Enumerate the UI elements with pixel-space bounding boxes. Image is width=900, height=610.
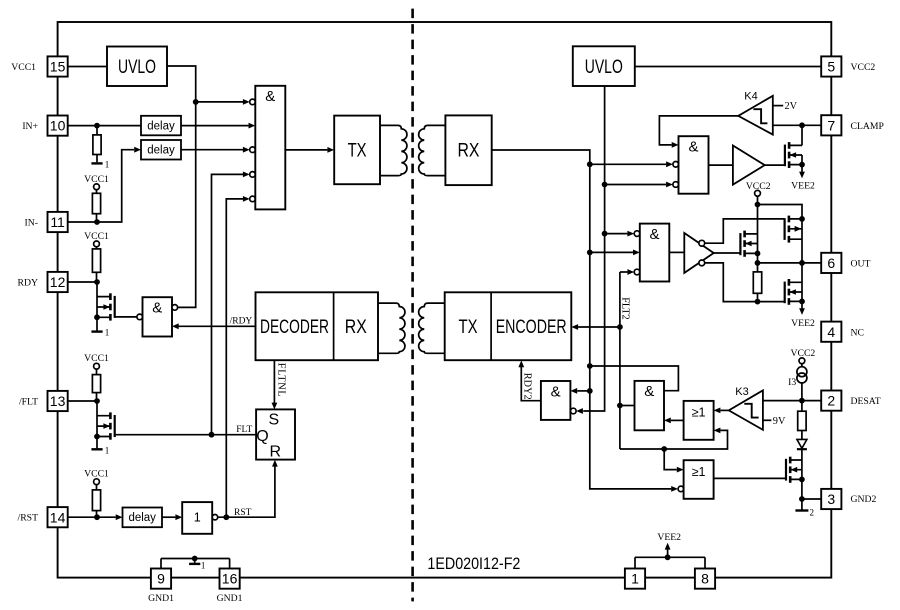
svg-text:VEE2: VEE2 <box>791 318 815 329</box>
wire VCC2 rail to Q4 and Q5 <box>755 202 805 263</box>
pin 15 VCC1 <box>11 56 67 76</box>
svg-text:4: 4 <box>827 324 835 340</box>
wire delay3 to buffer1 <box>162 514 182 520</box>
svg-text:1ED020I12-F2: 1ED020I12-F2 <box>427 555 520 573</box>
supply VEE2 below Q3 <box>791 172 815 192</box>
comparator K3 <box>729 386 763 430</box>
IC boundary <box>58 22 832 578</box>
svg-text:FLT2: FLT2 <box>619 297 630 320</box>
transistor Q1 RDY open-drain <box>94 282 115 331</box>
comparator K4 <box>738 91 773 135</box>
node 9V reference <box>763 416 786 427</box>
logic gate AND4 (fault) <box>635 381 665 430</box>
svg-text:6: 6 <box>827 255 835 271</box>
wire FLT from latch Q to Q2 gate <box>115 425 256 438</box>
resistor R4 pull-up /FLT <box>92 369 100 401</box>
svg-text:&: & <box>688 139 698 156</box>
svg-text:1: 1 <box>201 560 206 570</box>
node VCC2 tap output stage <box>746 181 771 205</box>
svg-text:1: 1 <box>194 511 201 525</box>
delay block delay1 <box>141 116 181 136</box>
wire FLTNL from DECODER to latch S <box>272 360 287 409</box>
svg-text:13: 13 <box>50 393 66 409</box>
wire pin7 CLAMP to K4 input <box>773 122 821 128</box>
svg-text:TX: TX <box>348 141 367 162</box>
wire UVLO2 output down to NAND2 input <box>571 86 608 414</box>
wire OUT row to pin6 <box>755 260 822 266</box>
wire FLT up to AND1 row4 <box>212 172 256 435</box>
svg-text:RDY2: RDY2 <box>521 373 532 400</box>
node VCC1 tap C <box>84 231 109 247</box>
svg-text:TX: TX <box>459 317 478 338</box>
svg-text:1: 1 <box>631 571 639 587</box>
wire UVLO1 branch to AND1 row1 <box>196 99 256 105</box>
block DECODER with RX <box>256 292 379 360</box>
logic gate OR1 <box>684 401 714 440</box>
logic gate AND3 (output) <box>640 224 670 282</box>
wire delay2 to AND1 row3 <box>181 147 255 153</box>
svg-text:RX: RX <box>345 317 367 338</box>
wire AND3 to buffer B3 <box>669 251 684 253</box>
svg-text:FLT: FLT <box>236 425 252 435</box>
isolation barrier dashed line <box>411 9 414 602</box>
svg-text:DECODER: DECODER <box>260 317 329 338</box>
transformer T2 secondary winding <box>419 303 445 353</box>
transformer T1 secondary winding <box>419 125 446 175</box>
wire AND2 row2 from RX line <box>590 161 679 167</box>
svg-text:&: & <box>152 300 162 317</box>
svg-text:14: 14 <box>50 509 66 525</box>
wire UVLO1 output down to NAND1 input bubble <box>167 66 199 307</box>
current source I3 <box>788 367 807 401</box>
block UVLO2 <box>573 46 635 86</box>
svg-text:12: 12 <box>50 274 66 290</box>
wire GND2 node to pin3 <box>799 496 821 502</box>
pin 5 VCC2 <box>821 56 875 76</box>
ground tie GND1 pins <box>161 556 230 571</box>
pin 16 GND1 <box>217 569 243 605</box>
pin 9 GND1 <box>148 569 174 605</box>
logic gate NAND2 (RDY2) <box>541 381 571 420</box>
svg-text:15: 15 <box>50 59 66 75</box>
terminator 2 GND2 <box>795 499 814 517</box>
svg-text:CLAMP: CLAMP <box>851 121 884 132</box>
wire pin15 to UVLO1 <box>68 66 107 68</box>
logic gate OR2 <box>684 460 714 499</box>
logic gate AND1 (input logic) <box>255 86 285 210</box>
wire AND3 row2 from RX line <box>590 250 640 256</box>
wire pin11 to delay2 <box>68 147 141 225</box>
svg-text:8: 8 <box>701 571 709 587</box>
svg-text:2V: 2V <box>785 101 798 112</box>
svg-text:NC: NC <box>851 327 864 338</box>
svg-text:1: 1 <box>105 328 110 338</box>
latch SR fault <box>256 409 295 460</box>
wire K3 output to OR1 <box>714 408 729 414</box>
svg-text:&: & <box>265 88 275 105</box>
wire K4 output to AND2 row1 <box>659 116 738 148</box>
logic gate AND2 (clamp) <box>679 136 709 194</box>
transformer T1 primary winding <box>380 125 407 175</box>
svg-text:delay: delay <box>128 512 156 524</box>
transistor Q2 /FLT open-drain <box>94 401 115 448</box>
svg-text:≥1: ≥1 <box>692 406 706 420</box>
pin 14 /RST <box>18 507 68 527</box>
svg-text:RX: RX <box>458 141 480 162</box>
svg-text:7: 7 <box>827 117 835 133</box>
wire pin14 to delay3 <box>68 514 123 520</box>
svg-text:16: 16 <box>222 571 238 587</box>
svg-text:10: 10 <box>50 118 66 134</box>
wire AND3 row1 from UVLO2 line <box>605 231 640 237</box>
svg-text:/FLT: /FLT <box>19 397 38 408</box>
node VCC2 tap DESAT <box>791 348 816 367</box>
svg-text:Q: Q <box>256 428 268 445</box>
pin 7 CLAMP <box>821 115 884 135</box>
svg-text:VEE2: VEE2 <box>657 532 681 543</box>
svg-text:UVLO: UVLO <box>585 57 623 78</box>
wire OR1 output to AND4 <box>664 418 684 424</box>
wire B3 top output to Q4 gate <box>705 219 785 243</box>
terminator 1 below R1 <box>91 160 109 170</box>
pin 8 VEE2 <box>695 569 715 589</box>
wire delay1 to AND1 row2 <box>181 123 255 129</box>
svg-text:9V: 9V <box>773 416 786 427</box>
block ENCODER with TX <box>445 292 572 360</box>
svg-text:&: & <box>551 383 561 400</box>
svg-text:ENCODER: ENCODER <box>496 317 567 338</box>
svg-text:delay: delay <box>147 120 175 132</box>
wire FLT2 to ENCODER input <box>571 324 620 330</box>
wire RX line wrap to AND4 input <box>590 366 679 391</box>
block RX1 <box>445 115 491 185</box>
pin 4 NC <box>821 322 864 342</box>
svg-text:&: & <box>649 226 659 243</box>
svg-text:RDY: RDY <box>18 278 38 289</box>
svg-text:GND2: GND2 <box>851 494 877 505</box>
svg-text:1: 1 <box>105 160 110 170</box>
wire RST to latch R input <box>218 460 278 520</box>
svg-text:RST: RST <box>234 508 252 518</box>
pin 2 DESAT <box>821 391 881 411</box>
svg-text:3: 3 <box>827 491 835 507</box>
svg-text:OUT: OUT <box>851 258 871 269</box>
delay block delay2 <box>141 140 181 160</box>
wire FLT2 feedback loop to OR1 <box>620 428 728 452</box>
transistor Q6 pull-down <box>785 263 805 305</box>
wire DESAT node to pin2 and K3 <box>763 398 821 404</box>
transistor Q5 source follower <box>740 231 760 257</box>
wire /RDY from DECODER to NAND1 <box>172 317 256 330</box>
buffer B3 output driver <box>684 233 713 273</box>
svg-text:K4: K4 <box>744 91 757 103</box>
buffer B2 clamp driver <box>733 146 765 185</box>
resistor R1 on IN+ <box>93 126 101 163</box>
svg-text:VCC1: VCC1 <box>11 62 36 73</box>
wire RX1 output down to OR2 input <box>492 150 684 492</box>
svg-text:9: 9 <box>157 571 165 587</box>
node 2V reference <box>773 101 798 112</box>
buffer 1 (RST shaper) <box>182 502 218 534</box>
pin 11 IN- <box>25 212 68 232</box>
wire UVLO2 to pin5 <box>635 66 821 68</box>
svg-text:DESAT: DESAT <box>851 396 881 407</box>
svg-text:/RDY: /RDY <box>230 317 253 327</box>
transformer T2 primary winding <box>378 303 405 353</box>
wire NAND2 input1 from RX line <box>570 388 589 394</box>
node VCC1 tap B <box>84 174 109 190</box>
wire Q1 gate to NAND1 output <box>115 314 143 320</box>
wire AND1 output to TX1 <box>285 147 334 153</box>
wire AND3 row3 from FLT2 line <box>620 269 640 275</box>
terminator 1 below Q2 <box>91 445 109 455</box>
pin 3 GND2 <box>821 489 876 509</box>
block TX1 <box>334 116 380 185</box>
node VCC1 tap E <box>84 469 109 485</box>
node VCC1 tap D <box>84 353 109 369</box>
resistor R6 gate pulldown <box>753 263 761 302</box>
svg-text:11: 11 <box>50 214 65 230</box>
svg-text:IN+: IN+ <box>22 121 38 132</box>
svg-text:≥1: ≥1 <box>692 465 706 479</box>
pin 6 OUT <box>821 253 870 273</box>
wire RST up to AND1 row5 <box>226 196 255 517</box>
wire pin12 node <box>68 279 100 285</box>
wire B2 to Q3 gate <box>765 164 785 166</box>
svg-text:2: 2 <box>810 507 815 517</box>
supply VEE2 below Q6 <box>791 301 815 329</box>
svg-text:1: 1 <box>105 445 110 455</box>
transistor Q4 pull-up P <box>785 216 802 243</box>
wire pin13 node <box>68 398 100 404</box>
svg-text:IN-: IN- <box>25 218 38 229</box>
diode D1 desat <box>797 439 807 449</box>
transistor Q7 desat discharge <box>786 449 805 499</box>
pin 1 VEE2 <box>625 569 645 589</box>
resistor R2 pull-up IN- <box>92 190 100 222</box>
svg-text:K3: K3 <box>735 386 748 398</box>
logic gate NAND1 (RDY) <box>143 297 178 336</box>
svg-text:2: 2 <box>827 393 835 409</box>
supply tie VEE2 pins 1 and 8 <box>635 532 705 568</box>
pin 12 RDY <box>18 272 68 292</box>
wire OR2 output to Q7 gate <box>714 477 786 479</box>
svg-text:UVLO: UVLO <box>118 57 156 78</box>
wire B3 bottom output to Q6 gate <box>705 263 785 305</box>
wire fault rail to OR2 input <box>664 449 683 473</box>
svg-text:GND1: GND1 <box>148 593 174 604</box>
wire AND2 row3 from UVLO2 line <box>605 182 679 188</box>
svg-text:delay: delay <box>147 145 175 157</box>
wire AND2 to buffer B2 <box>709 164 733 166</box>
resistor R7 desat <box>798 401 806 440</box>
net FLT2 vertical with label <box>617 272 630 449</box>
svg-text:S: S <box>268 412 279 429</box>
svg-text:R: R <box>270 443 282 460</box>
resistor R5 pull-up /RST <box>92 485 100 518</box>
block UVLO1 <box>107 47 167 87</box>
pin 10 IN+ <box>22 116 67 136</box>
wire B3 apex output to Q5 gate <box>714 252 741 254</box>
wire RDY2 from NAND2 to ENCODER <box>518 360 541 400</box>
wire FLT2 to AND4 output node <box>620 405 635 407</box>
svg-text:FLTNL: FLTNL <box>276 363 287 398</box>
transistor Q3 clamp <box>785 125 805 172</box>
svg-text:VEE2: VEE2 <box>791 181 815 192</box>
svg-text:VCC2: VCC2 <box>851 62 876 73</box>
svg-text:5: 5 <box>827 59 835 75</box>
terminator 1 below Q1 <box>91 328 109 338</box>
wire pin10 to delay1 <box>68 123 141 129</box>
svg-text:I3: I3 <box>788 377 796 388</box>
svg-text:GND1: GND1 <box>217 593 243 604</box>
delay block delay3 <box>123 508 163 528</box>
svg-text:&: & <box>644 383 654 400</box>
svg-text:/RST: /RST <box>18 513 39 524</box>
pin 13 /FLT <box>19 391 68 411</box>
resistor R3 pull-up RDY <box>92 247 100 282</box>
